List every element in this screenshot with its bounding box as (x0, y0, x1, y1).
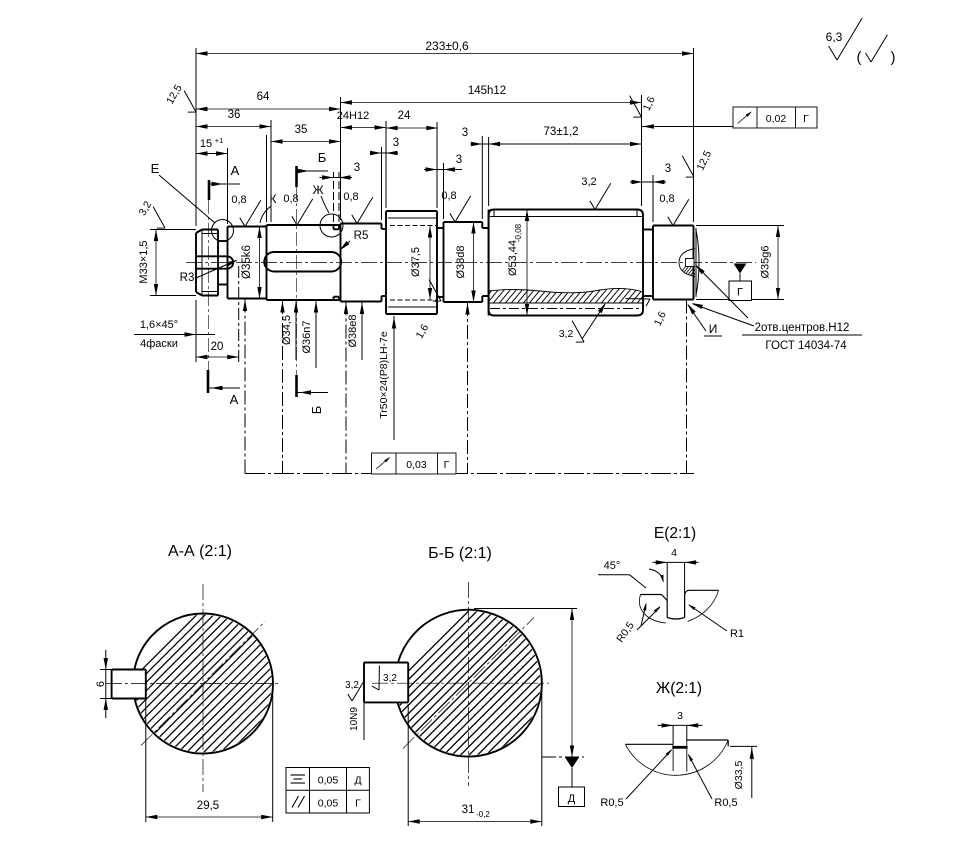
detail Zh boundary arc (625, 740, 728, 775)
section A-A dimension 29.5 (145, 700, 147, 822)
detail E R1 leader (689, 605, 727, 631)
shaft big section O53.44 (494, 210, 637, 316)
roughness 3.2 on hatch band (582, 304, 605, 339)
slot in threaded end (R3) (196, 255, 227, 257)
main centerline (186, 262, 756, 264)
svg-text:24H12: 24H12 (337, 110, 369, 122)
svg-text:Г: Г (355, 798, 361, 810)
svg-text:45°: 45° (604, 560, 621, 572)
runout datum line below shaft (245, 473, 694, 475)
dimension M33x1.5 (150, 229, 196, 231)
section B cut line (296, 186, 298, 375)
general roughness 6.3 top right (829, 18, 863, 60)
svg-text:-0,2: -0,2 (476, 810, 490, 819)
svg-text:Г: Г (737, 287, 743, 299)
note 2 center holes (696, 266, 748, 319)
dimension O37.5 inside Tr section (429, 226, 431, 300)
svg-text:35: 35 (295, 124, 308, 136)
dimension 145h12 (341, 102, 642, 104)
svg-text:Ж: Ж (312, 183, 323, 197)
extension lines above shaft (195, 48, 197, 226)
detail Zh R0.5 right leader (689, 755, 713, 799)
section B-B dimension 31-0.2 (407, 704, 409, 826)
svg-text:Б-Б (2:1): Б-Б (2:1) (428, 545, 492, 562)
svg-text:3: 3 (393, 137, 399, 149)
detail Zh R0.5 left leader (626, 750, 672, 799)
label Zh leader (321, 196, 329, 213)
svg-text:31: 31 (462, 804, 475, 816)
section B-B keyway roughness marks (348, 680, 365, 701)
svg-text:36: 36 (228, 109, 241, 121)
detail E boundary arcs (639, 595, 666, 624)
roughness 0.8 on O35g6 (668, 199, 689, 225)
dimension O53.44-0.08 (526, 210, 528, 316)
svg-text:0,8: 0,8 (231, 194, 246, 206)
leader O38e8 (361, 302, 363, 361)
shaft section O38e8 (341, 223, 382, 225)
dimension O35g6 (696, 225, 784, 227)
detail E R0.5 leader (637, 607, 660, 630)
svg-text:Д: Д (568, 793, 576, 805)
svg-text:10N9: 10N9 (349, 707, 360, 731)
svg-text:Г: Г (444, 459, 450, 471)
svg-text:): ) (891, 49, 896, 66)
tolerance frame 0.05 two rows (286, 768, 369, 814)
svg-text:Ж(2:1): Ж(2:1) (656, 680, 702, 697)
detail E callout circle (212, 220, 234, 242)
shaft section O38d8 (444, 221, 483, 223)
label I leader (688, 305, 706, 331)
svg-text:А-А (2:1): А-А (2:1) (168, 543, 232, 560)
roughness 1.6 groove after Tr (421, 280, 448, 305)
svg-text:20: 20 (211, 341, 224, 353)
svg-text:233±0,6: 233±0,6 (425, 39, 469, 53)
shaft keyway section O36n7 (267, 224, 341, 226)
svg-text:(: ( (857, 49, 862, 66)
svg-text:M33×1,5: M33×1,5 (138, 240, 150, 283)
section A-A keyway slot (112, 670, 146, 699)
svg-text:3: 3 (677, 710, 683, 722)
svg-text:29,5: 29,5 (197, 800, 219, 812)
svg-text:Е: Е (151, 161, 160, 176)
dimension 24H12 (341, 127, 387, 129)
svg-text:0,05: 0,05 (318, 775, 339, 787)
groove before big section (482.3-488.6) (481, 222, 483, 228)
detail Zh keyway bottom thick line (672, 746, 687, 749)
svg-text:15: 15 (200, 138, 212, 150)
svg-text:Ø53,44: Ø53,44 (507, 240, 519, 276)
tolerance frame 0.03 (372, 453, 457, 474)
svg-text:ГОСТ 14034-74: ГОСТ 14034-74 (765, 340, 847, 352)
leader Tr50x24(P8)LH-7e (393, 316, 395, 440)
svg-text:0,03: 0,03 (406, 459, 427, 471)
dimension 64 (196, 108, 341, 110)
svg-text:3: 3 (462, 127, 468, 139)
svg-text:Е(2:1): Е(2:1) (654, 525, 696, 542)
detail Zh groove walls (672, 744, 674, 771)
svg-text:3,2: 3,2 (345, 680, 359, 691)
roughness 1.6 groove right of big (626, 288, 653, 313)
detail Zh profile (625, 743, 673, 745)
svg-text:Ø38e8: Ø38e8 (347, 314, 359, 347)
shaft section O35k6 (228, 226, 267, 228)
detail Zh dimension 3 (672, 725, 674, 744)
detail E dimension 4 (666, 562, 668, 601)
svg-text:73±1,2: 73±1,2 (543, 126, 578, 138)
dimension 24 (386, 127, 438, 129)
section B-B centerlines (467, 582, 469, 786)
section A top marker (208, 180, 211, 200)
svg-text:4фаски: 4фаски (140, 338, 178, 350)
groove before Tr thread (381.5-386) (381, 224, 383, 230)
svg-text:Ø36n7: Ø36n7 (301, 320, 313, 353)
dimension 73+-1.2 and groove 3 (472, 143, 642, 145)
svg-text:Г: Г (803, 113, 809, 125)
leader O36n7 (315, 300, 317, 368)
roughness 0.8 on O36n7 (292, 199, 313, 225)
leader R5 (341, 241, 350, 249)
section B bottom marker (295, 375, 298, 397)
svg-text:Б: Б (318, 150, 327, 165)
svg-text:0,8: 0,8 (441, 190, 456, 202)
section A cut line (208, 200, 210, 370)
roughness 3.2 left (145, 207, 172, 232)
svg-text:+1: +1 (215, 136, 224, 145)
groove at thread exit (detail E) (218, 240, 228, 242)
dimension 233+-0.6 (196, 53, 694, 55)
dimension 35 (271, 141, 341, 143)
roughness 1.6 at 145h12 right (621, 96, 648, 121)
label K leader (260, 206, 271, 223)
section A bottom marker (207, 370, 210, 393)
roughness 0.8 on O38e8 (352, 197, 373, 223)
svg-text:0,8: 0,8 (343, 191, 358, 203)
dimension 3 groove Zh (320, 177, 353, 179)
dimension 3 groove before Tr (370, 152, 398, 154)
svg-text:2отв.центров.Н12: 2отв.центров.Н12 (755, 322, 850, 334)
groove after Tr (437-443.5) (437, 227, 444, 229)
svg-text:А: А (230, 392, 239, 407)
svg-text:Ø33,5: Ø33,5 (733, 761, 745, 790)
svg-text:А: А (231, 163, 240, 178)
section A-A circle with flat (134, 614, 273, 754)
svg-text:Ø37,5: Ø37,5 (410, 247, 422, 277)
label E leader (159, 175, 215, 223)
groove right of big section (643-653) (643, 229, 653, 231)
section B-B keyway slot (364, 663, 408, 703)
svg-text:R0,5: R0,5 (714, 797, 737, 809)
leader to frame 0.02 (642, 126, 734, 128)
section B-B right vertical dimension (474, 608, 577, 610)
svg-text:24: 24 (398, 110, 411, 122)
dimension 15+1 (196, 153, 228, 155)
svg-text:1,6×45°: 1,6×45° (140, 319, 178, 331)
dimension 36 (196, 126, 271, 128)
svg-text:Ø35g6: Ø35g6 (760, 245, 772, 278)
shaft right end section O35g6 (653, 225, 694, 227)
svg-text:3,2: 3,2 (559, 328, 574, 340)
roughness 0.8 on O38d8 (450, 196, 471, 222)
leader O34.5 (295, 300, 297, 360)
svg-text:Б: Б (309, 406, 324, 415)
svg-text:64: 64 (257, 91, 270, 103)
datum G flag on axis (734, 264, 747, 274)
detail E profile (641, 594, 662, 596)
svg-text:R5: R5 (354, 230, 369, 242)
section A-A centerlines (202, 584, 204, 792)
svg-text:3: 3 (665, 163, 671, 175)
shaft thread section M33x1.5 (202, 230, 218, 296)
dimension 3 groove right of big section (630, 181, 666, 183)
svg-text:3: 3 (456, 154, 462, 166)
section B top marker (295, 166, 298, 187)
svg-text:-0,08: -0,08 (514, 223, 523, 242)
svg-text:R0,5: R0,5 (600, 797, 623, 809)
svg-text:0,8: 0,8 (659, 193, 674, 205)
roughness 12.5 top left (176, 91, 203, 116)
svg-text:3,2: 3,2 (581, 176, 596, 188)
svg-text:4: 4 (671, 547, 677, 559)
svg-text:R1: R1 (730, 628, 744, 640)
keyway slot on O36n7 section (274, 252, 332, 272)
svg-text:Tr50×24(P8)LH-7e: Tr50×24(P8)LH-7e (378, 331, 390, 419)
roughness 0.8 on O35k6 (240, 200, 261, 226)
dimension 20 (195, 300, 197, 362)
svg-text:0,02: 0,02 (766, 113, 787, 125)
section A-A dimension 6 (100, 669, 112, 671)
svg-text:R3: R3 (180, 272, 195, 284)
section B-B circle with keyway (398, 610, 542, 757)
roughness 12.5 right (674, 156, 701, 181)
roughness 3.2 on big section top (590, 183, 611, 209)
svg-text:145h12: 145h12 (468, 85, 506, 97)
groove Zh on shaft (x333.5-339) (333, 225, 335, 229)
svg-text:3,2: 3,2 (383, 673, 397, 684)
svg-text:3: 3 (354, 162, 360, 174)
svg-text:Ø35k6: Ø35k6 (241, 245, 253, 279)
dimension 3 groove after Tr (424, 169, 462, 171)
datum D flag (565, 758, 579, 769)
tolerance frame 0.02 (733, 107, 817, 128)
dimension O35k6 (259, 227, 261, 299)
shaft Tr50x24 thread section (385, 211, 387, 314)
dimension O38d8 (473, 222, 475, 302)
svg-text:0,05: 0,05 (318, 798, 339, 810)
svg-text:Ø38d8: Ø38d8 (455, 245, 467, 278)
svg-text:И: И (709, 322, 718, 336)
center hole in right face (679, 249, 695, 277)
svg-text:Д: Д (354, 775, 361, 787)
detail Zh dimension O33.5 (730, 745, 757, 747)
svg-text:6,3: 6,3 (826, 30, 843, 44)
section B-B 10N9 label (363, 702, 365, 740)
svg-text:6: 6 (95, 681, 107, 687)
leader R3 (196, 261, 236, 279)
detail Zh callout circle (320, 214, 343, 237)
